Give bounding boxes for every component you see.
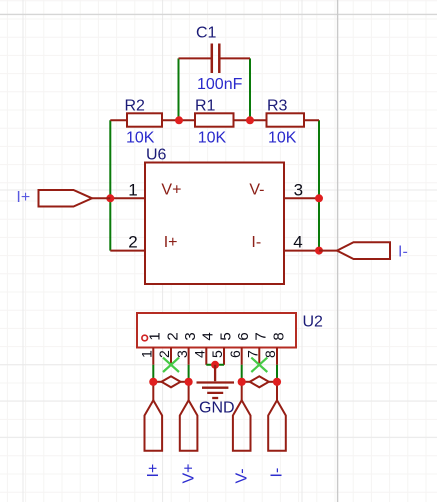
port label I+ [16,189,30,206]
junction pin1 net [149,378,157,386]
pin number 4 [293,233,302,252]
junction A (R2/R1/C1 left) [175,116,183,124]
junction pin1/I+ [106,194,114,202]
no-connect X pin7 [251,358,267,372]
U2 pin number digits below box (rotated) [139,350,279,358]
pin 4 (I-) lead [284,250,319,252]
wire: far-right vertical net (R3 right down to pin4) [318,120,320,250]
value 10K (R3) [268,130,297,147]
svg-text:I-: I- [398,243,408,260]
ground [197,365,235,398]
svg-text:1: 1 [128,180,137,199]
label U6 [146,147,167,164]
value 10K (R2) [126,130,155,147]
net label I- (bottom) [269,468,286,478]
label U2 [303,314,324,331]
junction pin8 net [273,378,281,386]
op-amp U6 box [145,163,284,285]
svg-text:C1: C1 [196,25,217,42]
wire bond flag V- (pin6) [233,382,251,451]
svg-text:GND: GND [199,400,235,417]
svg-text:5: 5 [217,332,234,340]
svg-text:V+: V+ [161,181,181,198]
pin number 3 [294,180,303,199]
svg-text:100nF: 100nF [197,76,243,93]
resistor R1 [179,113,250,126]
net label V- (bottom) [233,468,250,483]
pin number 1 [128,180,137,199]
junction pin6 net [238,378,246,386]
wire: far-left vertical net (R2 left down to pin2) [109,120,111,250]
svg-text:I+: I+ [164,234,178,251]
wire pin6 down [241,365,243,379]
svg-text:V+: V+ [180,463,197,483]
junction pin3 [315,194,323,202]
wire pin1 down [152,365,154,379]
label R1 [195,98,216,115]
svg-text:2: 2 [156,350,172,358]
wire bond flag V+ (pin3) [180,382,198,451]
svg-text:3: 3 [182,332,199,340]
grid major line horizontal [0,13,437,15]
junction pin3 net [185,378,193,386]
svg-text:V-: V- [249,181,264,198]
svg-text:4: 4 [293,233,302,252]
pin-1 indicator circle [142,335,148,341]
pin name I+ [164,234,178,251]
wire pin4-pin5 gnd net [206,364,224,366]
U2 pin name digits inside (rotated) [147,332,288,340]
pin number 2 [128,233,137,252]
svg-text:I+: I+ [145,464,162,478]
label C1 [196,25,217,42]
wire: right vertical net (cap right to junction B) [249,58,251,120]
svg-text:7: 7 [245,350,261,358]
svg-text:3: 3 [174,350,190,358]
svg-text:6: 6 [235,332,252,340]
pin name I- [251,234,261,251]
net label I+ (bottom) [145,464,162,478]
junction gnd tap [211,361,219,369]
svg-text:3: 3 [294,180,303,199]
connector U2 box [137,313,296,348]
pin name V+ [161,181,181,198]
wire: left vertical net (cap left to junction A) [178,58,180,120]
junction pin4/I- [315,247,323,255]
net-tie diamond pins6-8 [242,376,277,387]
label GND [199,400,235,417]
net label V+ (bottom) [180,463,197,483]
svg-text:8: 8 [270,332,287,340]
pin 2 (I+) lead [110,250,145,252]
svg-text:7: 7 [253,332,270,340]
value 100nF [197,76,243,93]
grid major line vertical [337,0,339,502]
svg-text:4: 4 [192,350,208,358]
capacitor C1 [179,44,251,74]
pin 3 (V-) lead [284,197,319,199]
svg-text:I-: I- [269,468,286,478]
svg-text:1: 1 [147,332,164,340]
svg-text:6: 6 [227,350,243,358]
svg-text:10K: 10K [268,130,297,147]
resistor R2 [110,113,179,126]
svg-text:5: 5 [209,350,225,358]
svg-text:2: 2 [164,332,181,340]
svg-text:R1: R1 [195,98,216,115]
svg-text:8: 8 [262,350,278,358]
svg-text:I+: I+ [16,189,30,206]
wire bond flag I+ (pin1) [145,382,163,451]
wire pin8 down [276,365,278,379]
svg-text:R3: R3 [267,98,288,115]
svg-text:R2: R2 [125,98,146,115]
value 10K (R1) [198,130,227,147]
svg-text:U6: U6 [146,147,167,164]
svg-text:2: 2 [128,233,137,252]
label R3 [267,98,288,115]
port flag I- (right) [319,242,390,259]
port label I- [398,243,408,260]
svg-text:4: 4 [200,332,217,340]
svg-text:V-: V- [233,468,250,483]
svg-text:10K: 10K [126,130,155,147]
pin 1 (V+) lead [110,197,145,199]
svg-text:U2: U2 [303,314,324,331]
svg-text:1: 1 [139,350,155,358]
wire pin3 down [188,365,190,379]
wire bond flag I- (pin8) [268,382,286,451]
no-connect X pin2 [163,358,179,372]
net-tie diamond pins1-3 [153,376,188,387]
U2 pin stubs [153,348,277,365]
junction B (R1/R3/C1 right) [246,116,254,124]
svg-text:I-: I- [251,234,261,251]
pin name V- [249,181,264,198]
label R2 [125,98,146,115]
port flag I+ (left) [39,190,111,207]
resistor R3 [250,113,319,126]
svg-text:10K: 10K [198,130,227,147]
